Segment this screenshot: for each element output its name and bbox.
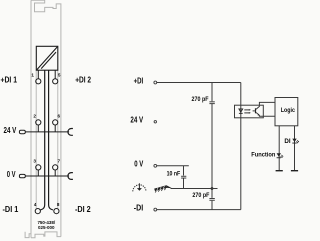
24V plug symbol [19, 130, 25, 133]
svg-text:0 V: 0 V [134, 160, 143, 169]
chassis line [171, 188, 218, 190]
optocoupler phototransistor [255, 108, 256, 113]
capacitor C3 10nF wire [183, 166, 185, 189]
contact 3 [36, 165, 41, 170]
svg-text:-DI: -DI [134, 204, 143, 213]
wire 0V [157, 165, 189, 167]
capacitor C2 270pF plates [209, 197, 214, 200]
optocoupler box [235, 105, 264, 118]
terminal 24V [154, 121, 156, 123]
electronics box U1 [36, 46, 58, 70]
optocoupler LED [239, 109, 243, 112]
ground right [291, 170, 298, 172]
logic box [275, 98, 298, 126]
logic pin left to ground [278, 126, 280, 171]
0V rail wire [25, 175, 69, 177]
contact 8 [54, 209, 59, 214]
svg-text:270 pF: 270 pF [192, 97, 209, 103]
contact 2 [36, 120, 41, 125]
svg-text:Logic: Logic [281, 107, 296, 114]
svg-text:Function: Function [251, 152, 275, 159]
svg-text:3: 3 [33, 158, 36, 163]
electronics box diagonal [37, 47, 58, 70]
svg-text:8: 8 [57, 202, 60, 207]
svg-text:10 nF: 10 nF [167, 172, 181, 178]
internal bus wire left [40, 70, 44, 210]
contact 1 [36, 79, 41, 84]
module inner contour lines [36, 70, 58, 209]
internal bus wire right [49, 70, 53, 210]
wire box to contact 5 [54, 70, 56, 78]
svg-text:5: 5 [58, 73, 61, 78]
input vertical wire [240, 83, 242, 210]
24V rail wire [25, 131, 69, 133]
stub contact 2 to 24V rail [37, 125, 39, 132]
stub contact 3 to 0V rail [37, 170, 39, 176]
stub contact 7 to 0V rail [54, 170, 56, 176]
junction dot chassis line [211, 187, 214, 190]
wire -DI [157, 209, 241, 211]
svg-text:-DI 1: -DI 1 [3, 205, 19, 214]
contact 7 [53, 165, 58, 170]
0V rail socket contact [68, 173, 73, 180]
24V rail socket contact [68, 129, 73, 136]
svg-text:7: 7 [58, 158, 61, 163]
0V plug symbol [19, 174, 25, 177]
svg-text:+DI 1: +DI 1 [1, 75, 18, 84]
LED indicator DI [292, 139, 296, 143]
svg-text:1: 1 [31, 73, 34, 78]
contact 5 [53, 79, 58, 84]
stub contact 6 to 24V rail [54, 125, 56, 132]
svg-text:-DI 2: -DI 2 [75, 205, 91, 214]
terminal -DI [154, 208, 157, 211]
optocoupler light arrows [244, 110, 249, 113]
module housing outline 750-438 [25, 0, 61, 237]
svg-text:DI: DI [284, 138, 290, 145]
svg-text:270 pF: 270 pF [192, 193, 209, 199]
logic pin right to ground [294, 126, 296, 171]
svg-text:0 V: 0 V [7, 170, 16, 179]
terminal 0V [154, 164, 157, 167]
svg-text:6: 6 [58, 113, 61, 118]
chassis symbol [154, 185, 172, 192]
LED indicator Function [277, 153, 281, 157]
svg-text:4: 4 [34, 202, 37, 207]
svg-text:+DI 2: +DI 2 [75, 75, 91, 84]
ground left [276, 170, 283, 172]
svg-text:+DI: +DI [134, 76, 144, 85]
svg-text:2: 2 [33, 113, 36, 118]
contact 4 [35, 209, 40, 214]
wire +DI [157, 82, 241, 84]
capacitor C3 10nF plates [181, 175, 186, 178]
svg-text:24 V: 24 V [130, 115, 143, 124]
terminal +DI [154, 81, 157, 84]
svg-text:24 V: 24 V [4, 126, 17, 135]
capacitor C1 270pF plates [209, 100, 214, 103]
svg-text:025-000: 025-000 [38, 225, 55, 230]
functional earth symbol [133, 183, 146, 191]
capacitor C1 wire [211, 83, 213, 210]
contact 6 [53, 120, 58, 125]
wire box to contact 1 [37, 70, 39, 78]
